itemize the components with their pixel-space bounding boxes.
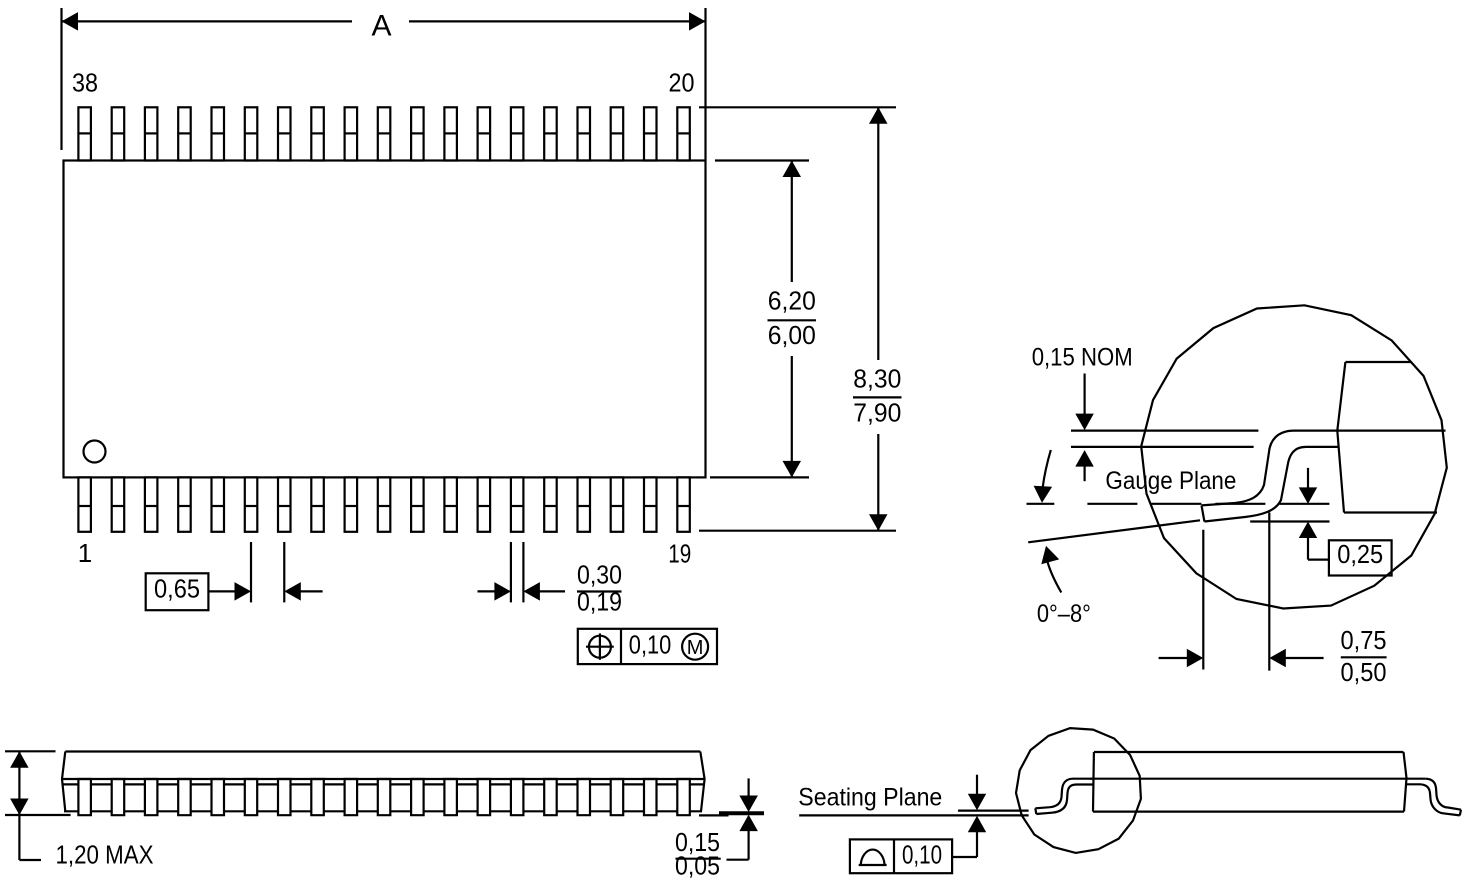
pin 19 (bottom row) bbox=[677, 477, 690, 531]
pin 20 (top row) bbox=[677, 107, 690, 160]
svg-text:20: 20 bbox=[669, 68, 695, 98]
0,25 dimension bbox=[1250, 520, 1329, 522]
side view lead 18 bbox=[644, 779, 657, 815]
side view top mold line bbox=[62, 778, 705, 780]
svg-text:0,15 NOM: 0,15 NOM bbox=[1032, 344, 1133, 372]
0,75/0,50 dimension extension lines bbox=[1202, 530, 1204, 670]
svg-text:0°–8°: 0°–8° bbox=[1037, 600, 1091, 628]
pin 33 (top row) bbox=[245, 107, 257, 160]
side view lead 16 bbox=[578, 779, 591, 815]
side view lead 11 bbox=[411, 779, 424, 815]
pin 12 (bottom row) bbox=[444, 477, 457, 531]
pin 13 (bottom row) bbox=[478, 477, 491, 531]
side view lead 15 bbox=[544, 779, 557, 815]
0,25 box bbox=[1329, 540, 1392, 575]
pin 24 (top row) bbox=[544, 107, 557, 160]
pin 3 (bottom row) bbox=[145, 477, 158, 531]
pin 17 (bottom row) bbox=[611, 477, 624, 531]
pin 30 (top row) bbox=[345, 107, 358, 160]
pin 34 (top row) bbox=[212, 107, 225, 160]
0,15 NOM arrows bbox=[1083, 374, 1085, 417]
side view lead 13 bbox=[478, 779, 491, 815]
svg-text:0,05: 0,05 bbox=[675, 851, 720, 881]
svg-text:38: 38 bbox=[72, 68, 98, 98]
pin 38 (top row) bbox=[78, 107, 91, 160]
seating plane 0,10 arrows bbox=[976, 775, 978, 796]
0-8 degree angle line bbox=[1028, 520, 1200, 542]
dimension A extension lines bbox=[60, 8, 62, 150]
pin 4 (bottom row) bbox=[178, 477, 191, 531]
lead thickness extension lines bbox=[1071, 430, 1258, 432]
svg-text:Gauge Plane: Gauge Plane bbox=[1105, 467, 1236, 495]
dimension 6,20 / 6,00 bbox=[791, 161, 793, 283]
side view lead 6 bbox=[245, 779, 257, 815]
detail balloon circle (gauge plane detail) bbox=[1141, 305, 1447, 608]
pin 1 index circle bbox=[84, 441, 106, 463]
pin 37 (top row) bbox=[112, 107, 125, 160]
0,15/0,05 standoff dimension bbox=[699, 814, 729, 816]
pin 36 (top row) bbox=[145, 107, 158, 160]
end view right lead bbox=[1407, 779, 1462, 816]
svg-text:19: 19 bbox=[668, 539, 691, 569]
end view mid line bbox=[1090, 778, 1426, 780]
pin 27 (top row) bbox=[444, 107, 457, 160]
pin 5 (bottom row) bbox=[212, 477, 225, 531]
pin 9 (bottom row) bbox=[345, 477, 358, 531]
pin 11 (bottom row) bbox=[411, 477, 424, 531]
svg-text:0,50: 0,50 bbox=[1341, 657, 1387, 687]
side view lead 5 bbox=[212, 779, 225, 815]
side view lead 1 bbox=[78, 779, 91, 815]
0,75/0,50 arrows bbox=[1159, 657, 1190, 659]
pin 14 (bottom row) bbox=[511, 477, 524, 531]
1,20 MAX dimension bbox=[5, 750, 56, 752]
svg-text:6,00: 6,00 bbox=[768, 320, 816, 350]
svg-text:1: 1 bbox=[78, 538, 92, 568]
pin 35 (top row) bbox=[178, 107, 191, 160]
side view lead 12 bbox=[444, 779, 457, 815]
side view lead 10 bbox=[378, 779, 391, 815]
pin 23 (top row) bbox=[578, 107, 591, 160]
feature control frame: position 0,10 M bbox=[578, 629, 717, 664]
svg-text:6,20: 6,20 bbox=[768, 286, 816, 316]
svg-text:0,30: 0,30 bbox=[577, 560, 622, 590]
pin 10 (bottom row) bbox=[378, 477, 391, 531]
0,65 dimension box and leader bbox=[146, 573, 209, 610]
side view lead 8 bbox=[311, 779, 324, 815]
svg-text:0,19: 0,19 bbox=[577, 587, 622, 617]
pin 22 (top row) bbox=[611, 107, 624, 160]
pin 8 (bottom row) bbox=[311, 477, 324, 531]
pin 25 (top row) bbox=[511, 107, 524, 160]
seating plane lines bbox=[799, 814, 1028, 816]
side view lead 7 bbox=[278, 779, 291, 815]
pin 21 (top row) bbox=[644, 107, 657, 160]
detail body edges bbox=[1337, 362, 1437, 513]
detail balloon circle (end view) bbox=[1016, 728, 1141, 853]
0,65 pitch extension lines bbox=[250, 542, 252, 602]
end view body bbox=[1093, 752, 1407, 812]
angle arrow bbox=[1047, 558, 1062, 593]
svg-text:0,65: 0,65 bbox=[154, 574, 200, 604]
end view left lead bbox=[1035, 779, 1093, 814]
pin 2 (bottom row) bbox=[112, 477, 125, 531]
side view lead 3 bbox=[145, 779, 158, 815]
svg-text:0,25: 0,25 bbox=[1337, 539, 1383, 569]
svg-text:8,30: 8,30 bbox=[853, 363, 901, 393]
side view lead bend line and body bottom bbox=[63, 783, 703, 785]
pin 28 (top row) bbox=[411, 107, 424, 160]
side view lead 19 bbox=[677, 779, 690, 815]
side view lead 4 bbox=[178, 779, 191, 815]
top view package body bbox=[64, 161, 706, 478]
side view body outline bbox=[62, 752, 705, 812]
pin 16 (bottom row) bbox=[578, 477, 591, 531]
svg-text:7,90: 7,90 bbox=[853, 398, 901, 428]
side view lead 2 bbox=[112, 779, 125, 815]
detail lead outline bbox=[1202, 431, 1340, 522]
extension lines for 8,30/7,90 and 6,20/6,00 bbox=[699, 106, 896, 108]
side view lead 14 bbox=[511, 779, 524, 815]
pin 26 (top row) bbox=[478, 107, 491, 160]
dimension A line with arrows bbox=[62, 20, 353, 22]
gauge plane leader arrow bbox=[1043, 450, 1051, 487]
svg-text:1,20 MAX: 1,20 MAX bbox=[56, 840, 154, 870]
detail body mid line bbox=[1339, 430, 1446, 432]
svg-text:0,10: 0,10 bbox=[629, 630, 672, 660]
feature control frame: seating plane 0,10 bbox=[850, 839, 952, 873]
svg-text:0,75: 0,75 bbox=[1341, 625, 1387, 655]
pin 7 (bottom row) bbox=[278, 477, 291, 531]
dimension 8,30 / 7,90 bbox=[877, 107, 879, 360]
pin 6 (bottom row) bbox=[245, 477, 257, 531]
svg-text:A: A bbox=[371, 10, 391, 43]
side view lead 17 bbox=[611, 779, 624, 815]
pin 29 (top row) bbox=[378, 107, 391, 160]
0,30/0,19 dimension arrows bbox=[478, 590, 497, 592]
pin 32 (top row) bbox=[278, 107, 291, 160]
svg-text:Seating Plane: Seating Plane bbox=[798, 784, 942, 812]
svg-text:0,10: 0,10 bbox=[902, 840, 942, 870]
pin 31 (top row) bbox=[311, 107, 324, 160]
side view lead 9 bbox=[345, 779, 358, 815]
pin 15 (bottom row) bbox=[544, 477, 557, 531]
pin 1 (bottom row) bbox=[78, 477, 91, 531]
0,30/0,19 pin width extension lines bbox=[510, 542, 512, 602]
pin 18 (bottom row) bbox=[644, 477, 657, 531]
gauge plane dashed line bbox=[1027, 503, 1055, 505]
svg-text:M: M bbox=[687, 637, 704, 659]
